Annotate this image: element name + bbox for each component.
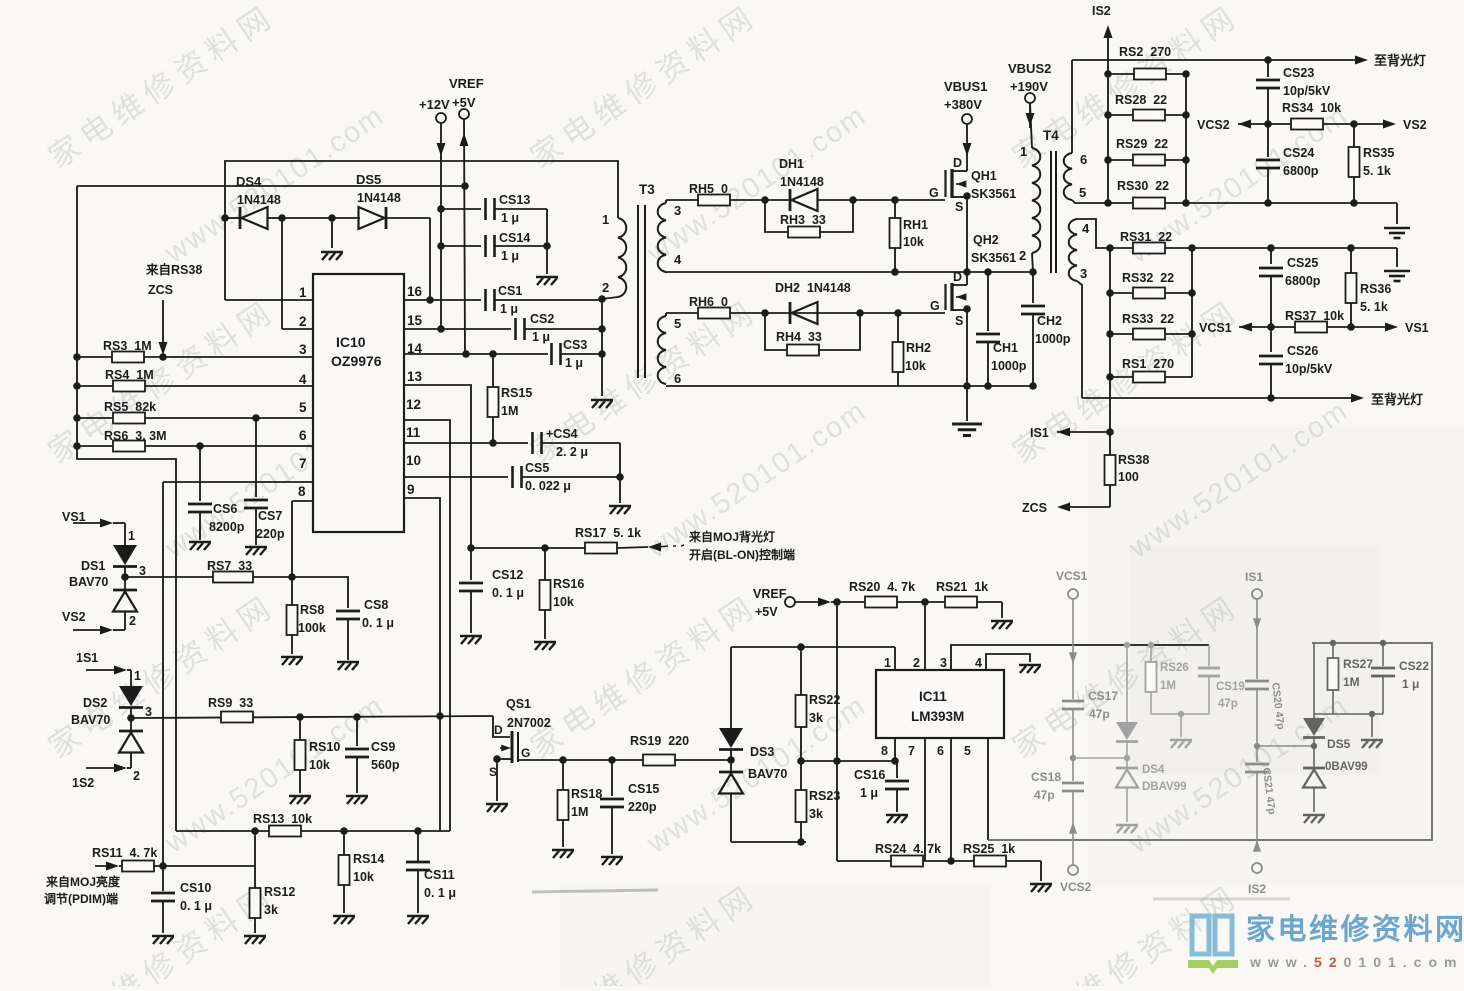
svg-text:220p: 220p [256, 527, 285, 541]
node pin8 junction [891, 757, 899, 765]
svg-text:9: 9 [407, 482, 415, 497]
wire pin16 to CS1 [404, 299, 481, 301]
node CS14 right junction [543, 242, 551, 250]
wire pin5 stub [987, 738, 989, 840]
wire ZCS arrow [162, 300, 164, 350]
svg-text:10k: 10k [905, 359, 926, 373]
resistor RH1 10k [894, 200, 896, 272]
svg-text:VS2: VS2 [62, 610, 86, 624]
svg-text:CS25: CS25 [1287, 256, 1318, 270]
node DH2 cathode junction [856, 309, 864, 317]
svg-text:CS14: CS14 [499, 231, 530, 245]
svg-text:DH2 1N4148: DH2 1N4148 [775, 281, 851, 295]
diode DS4 1N4148 [225, 217, 240, 219]
svg-text:家电维修资料网: 家电维修资料网 [524, 0, 764, 175]
capacitor CS13 1u [441, 208, 481, 210]
node bridge mid junction [963, 268, 971, 276]
svg-text:OZ9976: OZ9976 [331, 353, 382, 369]
resistor RS7 33 [125, 576, 292, 578]
net VS2 tap [1354, 123, 1388, 125]
resistor RS33 22 [1106, 330, 1114, 338]
node pin15 +12V junction [437, 325, 445, 333]
svg-text:8: 8 [881, 744, 888, 758]
svg-text:RS20 4. 7k: RS20 4. 7k [849, 580, 915, 594]
node QS1 source [493, 755, 501, 763]
resistor RS29 22 [1104, 156, 1112, 164]
svg-text:VBUS1: VBUS1 [944, 79, 987, 94]
svg-text:6: 6 [937, 744, 944, 758]
svg-text:5: 5 [299, 400, 307, 415]
node DS3 common [727, 756, 735, 764]
node RS16 top [541, 544, 549, 552]
wire DS4 to CS17 node [1073, 757, 1127, 759]
wire top box outline [225, 161, 618, 300]
svg-text:VS1: VS1 [1405, 321, 1429, 335]
node CS5 right junction [616, 473, 624, 481]
node CS17/CS18 junction [1070, 755, 1076, 761]
resistor RS38 100 [1109, 432, 1111, 455]
wire pin14 [404, 353, 548, 355]
capacitor CS25 6800p [1267, 244, 1275, 252]
node mid ground junction [328, 214, 336, 222]
svg-text:+CS4: +CS4 [546, 427, 578, 441]
node RS14 top [340, 827, 348, 835]
capacitor CS1 1u [484, 289, 487, 311]
node RS23 bottom [797, 838, 805, 846]
node CS2 right junction [598, 325, 606, 333]
wire VREF to pin8 rail [836, 602, 838, 861]
capacitor CS4 2.2u [531, 432, 534, 454]
svg-text:2: 2 [129, 614, 136, 628]
node RS30 right [1182, 199, 1190, 207]
wire DS3 bottom link [731, 841, 806, 843]
svg-text:S: S [955, 200, 963, 214]
svg-text:RS35: RS35 [1363, 146, 1394, 160]
decorative scan shading [1088, 425, 1464, 885]
svg-text:CS13: CS13 [499, 193, 530, 207]
wire left rail [77, 186, 176, 831]
resistor RS4 1M [73, 382, 81, 390]
node CS3 right junction [598, 350, 606, 358]
svg-text:ZCS: ZCS [1022, 501, 1047, 515]
node RS37 right [1347, 323, 1355, 331]
svg-text:至背光灯: 至背光灯 [1371, 392, 1423, 407]
svg-text:RS1 270: RS1 270 [1122, 357, 1174, 371]
transformer T4 secondary winding 4-3 [1077, 219, 1110, 248]
diode DH2 1N4148 [789, 302, 792, 324]
node pin14 VREF junction [462, 350, 470, 358]
resistor RS10 10k [299, 717, 301, 740]
capacitor CS10 0.1u [162, 866, 164, 891]
resistor RS23 3k [800, 761, 802, 790]
svg-text:6: 6 [674, 371, 681, 386]
svg-text:3k: 3k [809, 711, 823, 725]
net VS1 tap [1351, 326, 1390, 328]
ground below DS4-DS5 [331, 218, 333, 248]
capacitor CS9 560p [356, 717, 358, 746]
node DS2 common [127, 714, 135, 722]
svg-text:7: 7 [908, 744, 915, 758]
resistor RS14 10k [343, 831, 345, 855]
svg-text:+12V: +12V [419, 97, 450, 112]
svg-text:10k: 10k [353, 870, 374, 884]
capacitor CS12 0.1u [470, 548, 472, 580]
resistor RH6 0 [698, 308, 730, 319]
node pin9 RS9 junction [436, 712, 444, 720]
svg-text:RS27: RS27 [1343, 657, 1373, 671]
svg-text:S: S [489, 765, 497, 779]
svg-text:RS30 22: RS30 22 [1117, 179, 1169, 193]
node DS4 left junction [221, 214, 229, 222]
svg-text:4: 4 [674, 252, 682, 267]
capacitor CS19 47p [1208, 645, 1210, 666]
node CS24 bottom [1264, 199, 1272, 207]
wire pin3 sense line [1003, 644, 1005, 646]
svg-text:CS15: CS15 [628, 782, 659, 796]
svg-text:+190V: +190V [1010, 79, 1048, 94]
svg-text:15: 15 [407, 313, 423, 328]
wire DS5 to pin16 node [429, 218, 431, 300]
node CS14 junction left [437, 242, 445, 250]
transformer T3 secondary winding 3-4 [658, 203, 666, 272]
svg-text:2. 2 μ: 2. 2 μ [556, 445, 588, 459]
node VREF divider junction [833, 598, 841, 606]
node RS22/RS23 junction [797, 757, 805, 765]
node RS13/RS12 junction [251, 827, 259, 835]
svg-text:RS32 22: RS32 22 [1122, 271, 1174, 285]
resistor RH3 33 bypass [765, 200, 789, 232]
capacitor CS26 10p/5kV [1270, 327, 1272, 352]
node RS31 right [1188, 244, 1196, 252]
svg-text:4: 4 [975, 656, 982, 670]
svg-text:4: 4 [1082, 221, 1090, 236]
svg-text:D: D [953, 270, 962, 284]
svg-text:RS10: RS10 [309, 740, 340, 754]
svg-text:DS5: DS5 [356, 172, 381, 187]
svg-text:RS5 82k: RS5 82k [104, 400, 156, 414]
wire winding5 to RH6 [665, 313, 667, 316]
svg-text:RS38: RS38 [1118, 453, 1149, 467]
svg-text:RS15: RS15 [501, 386, 532, 400]
wire VREF feed line [77, 185, 465, 187]
svg-text:开启(BL-ON)控制端: 开启(BL-ON)控制端 [689, 547, 795, 562]
svg-text:10p/5kV: 10p/5kV [1285, 362, 1333, 376]
svg-text:RS24 4. 7k: RS24 4. 7k [875, 842, 941, 856]
capacitor CS24 6800p [1267, 124, 1269, 157]
resistor RS36 5.1k [1350, 248, 1352, 327]
svg-text:家电维修资料网: 家电维修资料网 [1246, 912, 1464, 946]
node CS26 bottom [1267, 394, 1275, 402]
diode DS4 DBAV99 (bottom) [1126, 742, 1128, 768]
svg-text:T4: T4 [1043, 128, 1059, 143]
svg-text:RS33 22: RS33 22 [1122, 312, 1174, 326]
resistor RS35 5.1k [1353, 124, 1355, 203]
svg-text:5. 1k: 5. 1k [1360, 300, 1388, 314]
svg-text:至背光灯: 至背光灯 [1374, 53, 1426, 68]
svg-text:QS1: QS1 [506, 697, 531, 711]
svg-text:IS2: IS2 [1092, 4, 1111, 18]
label lamp2 output [1351, 394, 1364, 403]
resistor RS9 33 [131, 716, 493, 718]
svg-text:S: S [955, 314, 963, 328]
node RS10 top [296, 713, 304, 721]
svg-text:SK3561: SK3561 [971, 251, 1016, 265]
capacitor CS17 47p [1062, 700, 1084, 703]
node RS7/RS8 junction [288, 573, 296, 581]
node RS35 bottom [1350, 199, 1358, 207]
svg-text:RH5 0: RH5 0 [689, 182, 728, 196]
svg-text:DS2: DS2 [83, 696, 107, 710]
svg-text:SK3561: SK3561 [971, 187, 1016, 201]
svg-text:3k: 3k [809, 807, 823, 821]
svg-text:CS2: CS2 [530, 312, 554, 326]
svg-text:11: 11 [406, 425, 421, 440]
svg-text:7: 7 [299, 456, 307, 471]
node RS2 right [1182, 70, 1190, 78]
transformer T3 primary winding [618, 218, 626, 297]
transformer T3 secondary winding 5-6 [658, 316, 666, 384]
capacitor CS14 1u [441, 245, 481, 247]
ground RS21 [1001, 602, 1003, 618]
svg-text:VS1: VS1 [62, 510, 86, 524]
capacitor CS23 10p/5kV [1264, 56, 1272, 64]
resistor RH4 33 bypass [765, 313, 788, 350]
svg-text:RS37 10k: RS37 10k [1285, 309, 1344, 323]
resistor RS13 10k [176, 830, 450, 832]
svg-text:100k: 100k [298, 621, 326, 635]
svg-text:CS12: CS12 [492, 568, 523, 582]
wire IS1 rail [1109, 248, 1111, 432]
svg-text:CS26: CS26 [1287, 344, 1318, 358]
svg-text:IC11: IC11 [919, 689, 947, 704]
svg-text:10k: 10k [553, 595, 574, 609]
svg-text:CH2: CH2 [1037, 314, 1062, 328]
net VCS2 tap [1238, 120, 1251, 129]
svg-text:RS9 33: RS9 33 [208, 696, 253, 710]
wire RS26/CS19 bottom link [1151, 713, 1209, 715]
svg-text:0. 1 μ: 0. 1 μ [492, 586, 524, 600]
wire CS4 right [619, 443, 621, 477]
svg-text:VCS1: VCS1 [1199, 321, 1232, 335]
svg-text:220p: 220p [628, 800, 657, 814]
svg-text:CS9: CS9 [371, 740, 395, 754]
diode DS2 bottom (pin2) [119, 730, 143, 733]
svg-text:CS17: CS17 [1088, 689, 1118, 703]
wire pin8 [292, 500, 313, 502]
capacitor CS8 0.1u [292, 577, 348, 608]
svg-text:1000p: 1000p [1035, 332, 1071, 346]
node pin6 junction [947, 857, 955, 865]
svg-text:1N4148: 1N4148 [780, 175, 824, 189]
resistor RS22 3k [800, 647, 802, 695]
wire lamp2 line [1082, 397, 1356, 399]
svg-text:ZCS: ZCS [148, 283, 173, 297]
svg-text:10k: 10k [309, 758, 330, 772]
svg-text:1M: 1M [501, 404, 518, 418]
node QH1 source [963, 192, 971, 200]
capacitor CS5 0.022u [511, 466, 514, 488]
wire pin3 line [951, 645, 1209, 670]
wire pin1 stub [894, 647, 896, 670]
svg-text:100: 100 [1118, 470, 1139, 484]
label lamp1 output [1355, 56, 1368, 65]
transistor QH1 SK3561 [952, 170, 967, 172]
node CS13 junction [437, 205, 445, 213]
wire RS17 line [471, 547, 585, 549]
wire right rail lower [1191, 248, 1193, 377]
svg-text:0. 022 μ: 0. 022 μ [525, 479, 571, 493]
svg-text:0. 1 μ: 0. 1 μ [424, 886, 456, 900]
svg-text:DS3: DS3 [750, 745, 774, 759]
capacitor CS16 1u [895, 760, 897, 762]
svg-text:CS11: CS11 [424, 868, 455, 882]
svg-text:CS1: CS1 [498, 284, 522, 298]
svg-text:RS2 270: RS2 270 [1119, 45, 1171, 59]
resistor RS21 1k [945, 597, 977, 608]
resistor RS12 3k [254, 866, 256, 888]
node RS22 top [797, 643, 805, 651]
node CS20/CS21 junction [1254, 743, 1260, 749]
capacitor CH2 1000p [1032, 272, 1034, 303]
svg-text:QH1: QH1 [971, 169, 997, 183]
svg-text:RS7 33: RS7 33 [207, 559, 252, 573]
svg-text:2: 2 [1019, 248, 1026, 263]
transformer T4 primary winding [1030, 103, 1032, 148]
resistor RS28 22 [1104, 111, 1112, 119]
svg-text:1 μ: 1 μ [1402, 677, 1419, 691]
node DH1 cathode junction [849, 196, 857, 204]
svg-text:RS22: RS22 [809, 693, 840, 707]
svg-text:3: 3 [145, 705, 152, 719]
svg-text:CS16: CS16 [854, 768, 885, 782]
svg-text:3: 3 [1080, 266, 1087, 281]
svg-text:CS7: CS7 [258, 509, 282, 523]
node CH2/T4 junction [1029, 268, 1037, 276]
svg-text:www.520101.com: www.520101.com [641, 99, 873, 270]
svg-text:VS2: VS2 [1403, 118, 1427, 132]
resistor RS5 82k [73, 414, 81, 422]
svg-text:IS2: IS2 [1248, 882, 1266, 896]
svg-text:16: 16 [407, 284, 423, 299]
transformer T3 core [637, 205, 639, 378]
wire right rail upper [1185, 74, 1187, 203]
wire winding3 to RH5 [665, 200, 667, 203]
node DH2 anode junction [761, 309, 769, 317]
svg-text:2: 2 [913, 656, 920, 670]
resistor RS3 1M [73, 353, 81, 361]
svg-text:CS5: CS5 [525, 461, 549, 475]
node VCS2 junction [1264, 120, 1272, 128]
svg-text:DH1: DH1 [779, 157, 804, 171]
ground lamp1 sense [1396, 203, 1398, 224]
resistor RS31 22 [1106, 244, 1114, 252]
ground RS27/CS22 [1371, 714, 1373, 737]
svg-text:1 μ: 1 μ [860, 786, 878, 800]
svg-text:8200p: 8200p [209, 520, 245, 534]
node CH2 bottom junction [1029, 382, 1037, 390]
node RS20/RS21 junction [921, 598, 929, 606]
svg-text:IS1: IS1 [1245, 570, 1263, 584]
wire to ground mid [282, 217, 332, 219]
node RH1 top junction [891, 196, 899, 204]
diode DS4 DBAV99 (top) [1126, 645, 1128, 722]
node RS29 right [1182, 156, 1190, 164]
svg-text:D: D [494, 723, 503, 737]
svg-text:1 μ: 1 μ [532, 330, 550, 344]
diode DS5 0BAV99 (top) [1313, 643, 1315, 718]
wire pin8 stub [894, 738, 896, 761]
capacitor CS20 47p [1245, 680, 1269, 683]
svg-text:VCS2: VCS2 [1060, 880, 1092, 894]
svg-text:1S1: 1S1 [76, 651, 98, 665]
svg-text:VCS2: VCS2 [1197, 118, 1230, 132]
svg-text:DS1: DS1 [81, 559, 105, 573]
svg-text:560p: 560p [371, 758, 400, 772]
node DS4 top junction [1124, 642, 1130, 648]
svg-text:1 μ: 1 μ [565, 356, 583, 370]
resistor RS15 1M [492, 354, 494, 443]
node VREF-line junction [461, 182, 469, 190]
resistor RH5 0 [698, 195, 730, 206]
op-amp IC10 OZ9976 [313, 274, 404, 532]
svg-text:3: 3 [139, 564, 146, 578]
svg-text:来自MOJ背光灯: 来自MOJ背光灯 [688, 529, 775, 544]
svg-text:G: G [929, 186, 939, 200]
svg-text:VCS1: VCS1 [1056, 569, 1088, 583]
diode DH1 1N4148 [789, 189, 792, 211]
svg-text:RS29 22: RS29 22 [1116, 137, 1168, 151]
resistor RS17 5.1k [585, 543, 617, 554]
svg-text:调节(PDIM)端: 调节(PDIM)端 [44, 891, 118, 906]
diode DS3 BAV70 (top) [730, 647, 732, 728]
svg-text:10p/5kV: 10p/5kV [1283, 84, 1331, 98]
svg-text:+380V: +380V [944, 97, 982, 112]
svg-text:RS6 3. 3M: RS6 3. 3M [104, 429, 167, 443]
node CS7 junction [252, 414, 260, 422]
svg-text:RH1: RH1 [903, 218, 928, 232]
resistor RS30 22 [1104, 199, 1112, 207]
diode DS5 0BAV99 (bottom) [1313, 738, 1315, 768]
svg-text:CS24: CS24 [1283, 146, 1314, 160]
svg-text:RS16: RS16 [553, 577, 584, 591]
svg-text:4: 4 [299, 372, 307, 387]
wire RS12 riser [254, 831, 256, 866]
wire pin1 [225, 299, 313, 301]
svg-text:IC10: IC10 [336, 334, 366, 350]
net VCS1 tap [1239, 323, 1252, 332]
svg-text:T3: T3 [639, 182, 655, 197]
svg-text:RS11 4. 7k: RS11 4. 7k [92, 846, 157, 860]
svg-text:CS18: CS18 [1031, 770, 1061, 784]
svg-text:BAV70: BAV70 [69, 575, 108, 589]
svg-text:BAV70: BAV70 [71, 713, 110, 727]
node RS11 junction [159, 862, 167, 870]
node RS34 right junction [1350, 120, 1358, 128]
svg-text:家电维修资料网: 家电维修资料网 [42, 0, 282, 175]
svg-text:RS17 5. 1k: RS17 5. 1k [575, 526, 641, 540]
svg-text:1 μ: 1 μ [501, 211, 519, 225]
wire pin6 stub [950, 738, 952, 861]
svg-text:CS6: CS6 [213, 502, 237, 516]
svg-text:VBUS2: VBUS2 [1008, 61, 1051, 76]
resistor RS1 270 [1106, 373, 1114, 381]
resistor RS27 1M [1332, 643, 1334, 658]
svg-text:CS10: CS10 [180, 881, 211, 895]
ground main return [966, 386, 968, 421]
resistor RS25 1k [974, 856, 1006, 867]
node RS15 bottom junction [489, 439, 497, 447]
capacitor CS6 8200p [199, 446, 201, 501]
